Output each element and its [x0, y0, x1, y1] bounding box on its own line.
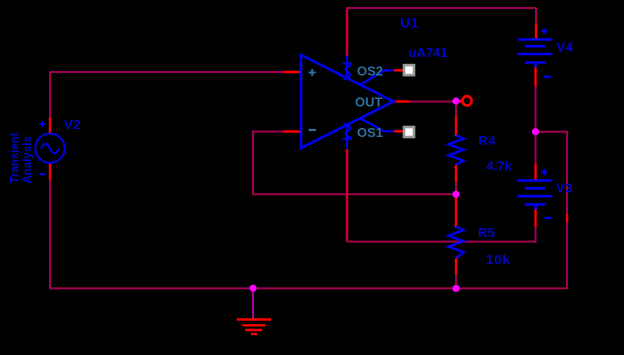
V3 minus mark — [545, 217, 552, 219]
junction dot: output node — [452, 97, 459, 104]
ground bar 1 — [237, 318, 271, 320]
wire: ground stub from rail down to ground symbol — [252, 288, 254, 319]
V4 plate 4 short — [525, 63, 545, 68]
svg-text:R5: R5 — [478, 225, 495, 240]
wire: mid junction down to V3 top — [535, 132, 537, 165]
ground bar 2 — [242, 324, 265, 326]
R5 top lead — [455, 196, 457, 228]
V2 plus mark — [39, 121, 45, 127]
junction dot: R5 ground node — [452, 285, 459, 292]
svg-text:U1: U1 — [400, 15, 419, 31]
junction dot: battery midpoint node — [532, 128, 539, 135]
wire: R4 bottom lead to junction — [455, 181, 457, 194]
op-amp U1 — [284, 9, 448, 242]
V3 plus mark — [541, 169, 547, 176]
wire: mid-supply junction right branch to ground rail — [456, 132, 567, 289]
R5 zigzag — [449, 227, 464, 259]
V3 top lead — [534, 164, 536, 180]
svg-text:V4: V4 — [557, 40, 574, 55]
OS1 diagonal stub — [360, 118, 394, 131]
V4 plus mark — [541, 28, 547, 34]
OS1 red stub — [394, 130, 404, 132]
svg-text:R4: R4 — [479, 133, 497, 148]
V2 bottom lead — [49, 163, 51, 180]
junction dot: feedback node — [452, 191, 459, 198]
OS2 squiggle — [343, 64, 353, 80]
battery V4 — [518, 24, 574, 87]
wire: V4 bottom to mid-supply junction — [535, 86, 537, 132]
V2 top lead — [49, 118, 51, 135]
svg-text:uA741: uA741 — [409, 45, 448, 60]
+ input lead — [284, 71, 302, 73]
voltage source V2 — [10, 117, 82, 184]
R5 bottom lead — [455, 258, 457, 274]
V4 plate 3 long — [518, 53, 553, 56]
- input lead — [284, 130, 302, 132]
OS2 terminal square — [404, 65, 414, 75]
ring red stub — [458, 100, 462, 102]
svg-text:V3: V3 — [556, 181, 573, 196]
V4 bottom lead — [534, 67, 536, 86]
R4 bottom lead — [455, 165, 457, 182]
OS2 diagonal stub — [360, 70, 394, 85]
V3 plate 4 short — [525, 205, 545, 210]
V4 top lead — [535, 24, 537, 40]
svg-text:V2: V2 — [64, 117, 81, 132]
ground bar 3 — [245, 329, 262, 331]
wire: feedback from - input to R4/R5 junction — [253, 132, 456, 195]
V+ pin lead (wire under red core) — [346, 9, 349, 56]
wire: output node down to R4 top — [455, 103, 457, 118]
ground bar 4 — [251, 333, 257, 335]
V3 plate 1 long — [518, 179, 553, 182]
ground symbol — [237, 320, 271, 335]
V3 bottom lead — [534, 210, 536, 227]
output terminal ring O — [458, 96, 472, 105]
R4 top lead — [455, 117, 457, 136]
V3 plate 2 short — [525, 187, 545, 190]
resistor R5 — [449, 196, 511, 274]
V2 minus mark — [40, 173, 46, 175]
svg-text:Transient: Transient — [10, 132, 22, 183]
wire: V3 bottom to V- rail corner — [347, 226, 536, 242]
R4 zigzag — [449, 135, 464, 165]
wire: R5 bottom to ground rail — [455, 273, 457, 288]
svg-text:OS2: OS2 — [357, 64, 383, 79]
svg-text:OUT: OUT — [355, 95, 383, 110]
V- pin blue segment — [346, 125, 348, 149]
V4 minus mark — [544, 76, 551, 78]
svg-text:10k: 10k — [486, 252, 511, 267]
junction dot: ground symbol node — [249, 285, 256, 292]
V3 plate 3 long — [518, 195, 553, 198]
output lead — [394, 100, 410, 102]
op-amp plus mark — [309, 69, 316, 76]
triangle body — [301, 55, 394, 148]
red tick on right branch wire — [566, 214, 568, 222]
OS1 squiggle — [343, 124, 353, 139]
wire: V2 + up and right to op-amp + input — [50, 72, 284, 118]
battery V3 — [518, 164, 573, 227]
wire: output node horizontal — [409, 101, 453, 103]
resistor R4 — [449, 117, 513, 182]
V2 body circle — [35, 134, 64, 163]
OS1 terminal square — [404, 127, 414, 137]
op-amp minus mark — [309, 129, 316, 131]
V- pin lead (wire under red core) — [346, 149, 349, 242]
OS2 red stub — [394, 69, 404, 71]
wire: V+ top rail from op-amp V+ pin to V4 + terminal — [347, 8, 536, 9]
svg-text:4.7k: 4.7k — [487, 159, 513, 174]
wire: V4 top lead upper purple segment — [535, 8, 537, 24]
V4 plate 1 long — [518, 38, 553, 41]
svg-text:OS1: OS1 — [357, 125, 383, 140]
wire: bottom ground rail — [50, 179, 456, 288]
V4 plate 2 short — [525, 45, 545, 48]
V+ pin blue segment — [346, 56, 348, 79]
svg-text:Analysis: Analysis — [22, 136, 34, 183]
V2 sine wave — [41, 144, 59, 154]
